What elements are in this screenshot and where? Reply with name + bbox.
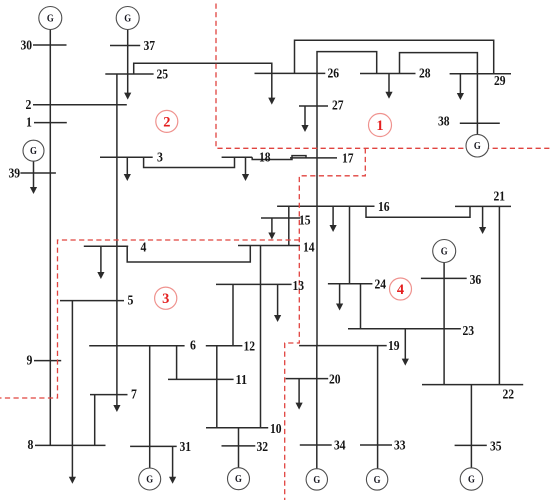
label 3 [157, 151, 163, 166]
generator 30 [39, 7, 62, 30]
generator 36 [433, 240, 456, 263]
generator 32 [228, 468, 250, 490]
svg-text:39: 39 [9, 167, 21, 182]
load on bus 13 [274, 284, 281, 322]
generator 33 [366, 469, 387, 490]
svg-text:2: 2 [163, 114, 170, 130]
svg-text:3: 3 [162, 291, 169, 307]
label 9 [27, 354, 33, 369]
svg-text:7: 7 [131, 388, 137, 403]
wire line 21-22 [498, 206, 500, 384]
label 30 [21, 39, 33, 54]
load on bus 29 [457, 74, 464, 100]
load on bus 28 [385, 74, 392, 99]
svg-text:18: 18 [259, 151, 271, 166]
generator 34 [306, 469, 327, 490]
bus 32 bar [222, 445, 256, 447]
svg-text:19: 19 [388, 339, 400, 354]
bus 12 bar [206, 345, 243, 347]
bus 39 bar [20, 172, 56, 174]
wire line 13-12 [232, 284, 234, 345]
wire line 16-21 [366, 206, 470, 217]
bus 6 bar [89, 345, 184, 347]
wire chain 25-2-3-4-5-6-7 [116, 74, 118, 395]
bus 25 bar [105, 73, 153, 75]
svg-text:37: 37 [144, 39, 156, 54]
svg-text:20: 20 [329, 373, 341, 388]
svg-text:G: G [374, 475, 381, 486]
label 20 [329, 373, 341, 388]
wire line 19-20-34 to generator-34 [316, 346, 318, 469]
load on bus 21 [479, 206, 486, 234]
load on bus 7 [113, 395, 120, 412]
generator 37 [116, 7, 139, 30]
load on bus 39 [30, 173, 37, 194]
bus 8 bar [35, 444, 106, 446]
label 16 [378, 200, 390, 215]
svg-text:30: 30 [21, 39, 33, 54]
label 4 [141, 241, 147, 256]
svg-text:8: 8 [28, 438, 34, 453]
label 17 [342, 152, 354, 167]
wire line 26-28 and long vertical 26-27-17-16-19 [317, 52, 377, 346]
zone boundary 1-2 vertical and 1 bottom [216, 4, 550, 149]
zone boundary notch around bus 17 and 4 left side [285, 148, 366, 500]
label 6 [190, 339, 196, 354]
bus 14 bar [238, 245, 300, 247]
bus 19 bar [299, 345, 387, 347]
svg-text:16: 16 [378, 200, 390, 215]
svg-text:G: G [474, 141, 481, 152]
wire line 6-31 to generator-31 [149, 346, 151, 468]
bus 38 bar [460, 122, 500, 124]
label 26 [328, 67, 340, 82]
svg-text:G: G [441, 246, 448, 257]
wire line 16-24 [349, 206, 351, 283]
svg-text:23: 23 [463, 324, 475, 339]
zone 4 circle [390, 278, 412, 300]
load on bus 16 [330, 206, 337, 232]
svg-text:13: 13 [293, 279, 305, 294]
label 36 [470, 273, 482, 288]
svg-text:1: 1 [26, 116, 32, 131]
svg-text:21: 21 [494, 190, 506, 205]
label 19 [388, 339, 400, 354]
zone 3 circle [155, 287, 177, 309]
wire generator-37 to bus 37 to bus 25 [127, 30, 129, 75]
label 18 [259, 151, 271, 166]
svg-text:15: 15 [299, 214, 311, 229]
load on bus 3 [124, 157, 131, 181]
label 24 [375, 278, 387, 293]
label 10 [270, 422, 282, 437]
svg-text:6: 6 [190, 339, 196, 354]
bus 1 bar [34, 122, 67, 124]
label 35 [490, 440, 502, 455]
bus 21 bar [455, 205, 511, 207]
load on bus 24 [336, 284, 343, 311]
wire line 3-18 [144, 157, 235, 167]
svg-text:17: 17 [342, 152, 354, 167]
bus 11 bar [168, 378, 234, 380]
svg-text:4: 4 [397, 282, 405, 298]
bus 20 bar [286, 378, 329, 380]
wire line 18-17 jog [252, 156, 306, 160]
svg-text:2: 2 [26, 98, 32, 113]
bus 18 bar [222, 156, 253, 158]
svg-text:G: G [124, 13, 131, 24]
bus 30 bar [33, 44, 67, 46]
bus 24 bar [328, 283, 373, 285]
svg-text:4: 4 [141, 241, 147, 256]
label 34 [334, 439, 346, 454]
wire line 26-29 top [295, 40, 494, 74]
svg-text:5: 5 [128, 294, 134, 309]
wire line 12-11-10 [216, 346, 218, 428]
wire line 24-23 [360, 284, 362, 329]
load on bus 20 [296, 379, 303, 410]
svg-text:G: G [47, 13, 54, 24]
label 39 [9, 167, 21, 182]
bus 27 bar [299, 105, 328, 107]
load on bus 25 [124, 74, 131, 100]
svg-text:24: 24 [375, 278, 387, 293]
bus 15 bar [261, 217, 300, 219]
bus 31 bar [130, 445, 177, 447]
label 22 [503, 388, 515, 403]
svg-text:34: 34 [334, 439, 346, 454]
bus 23 bar [348, 328, 461, 330]
bus 16 bar [277, 205, 374, 207]
label 8 [28, 438, 34, 453]
generator 35 [460, 468, 482, 490]
wire line 25-26 [134, 63, 272, 74]
label 32 [257, 440, 269, 455]
label 5 [128, 294, 134, 309]
label 11 [236, 373, 248, 388]
wire generator-30 chain 30-2-1-39-9-8 [49, 30, 51, 446]
svg-text:1: 1 [376, 118, 383, 134]
label 2 [26, 98, 32, 113]
svg-text:G: G [146, 474, 153, 485]
bus 2 bar [33, 104, 127, 106]
load on bus 23 [402, 329, 409, 366]
bus 5 bar [60, 300, 124, 302]
label 33 [394, 439, 406, 454]
wire line 16-15-14 [288, 206, 290, 245]
bus 7 bar [90, 394, 128, 396]
svg-text:22: 22 [503, 388, 515, 403]
generator 38 [466, 134, 489, 157]
wire line 22-35 to generator-35 [470, 385, 472, 468]
label 1 [26, 116, 32, 131]
bus 37 bar [110, 45, 140, 47]
svg-text:35: 35 [490, 440, 502, 455]
label 37 [144, 39, 156, 54]
svg-text:9: 9 [27, 354, 33, 369]
label 29 [494, 74, 506, 89]
wire line 5-8 [71, 301, 73, 446]
bus 28 bar [360, 73, 416, 75]
bus 9 bar [34, 360, 61, 362]
load on bus 8 [69, 445, 76, 483]
bus 26 bar [255, 72, 326, 74]
generator 31 [139, 468, 161, 490]
wire generator-36 to 36-23-22 [443, 262, 445, 385]
bus 22 bar [422, 384, 523, 386]
label 25 [157, 68, 169, 83]
bus 33 bar [360, 444, 392, 446]
wire line 19-33 to generator-33 [377, 346, 379, 469]
svg-text:12: 12 [244, 340, 256, 355]
svg-text:38: 38 [438, 115, 450, 130]
wire line 28-29 and 29-38 to generator-38 [400, 53, 478, 135]
svg-text:26: 26 [328, 67, 340, 82]
svg-text:10: 10 [270, 422, 282, 437]
label 12 [244, 340, 256, 355]
wire line 4-14 [127, 246, 250, 263]
svg-text:G: G [313, 475, 320, 486]
svg-text:G: G [468, 474, 475, 485]
load on bus 4 [97, 246, 104, 279]
generator 39 [23, 140, 44, 161]
svg-text:G: G [30, 146, 37, 157]
label 27 [332, 99, 344, 114]
wire line 6-11 [176, 346, 178, 380]
zone boundary 2-3 horizontal and 3 left side [0, 240, 299, 398]
label 38 [438, 115, 450, 130]
svg-text:3: 3 [157, 151, 163, 166]
bus 3 bar [100, 156, 153, 158]
svg-text:31: 31 [180, 440, 192, 455]
svg-text:36: 36 [470, 273, 482, 288]
svg-text:25: 25 [157, 68, 169, 83]
bus 13 bar [216, 283, 292, 285]
svg-text:14: 14 [303, 241, 315, 256]
load on bus 27 [301, 106, 308, 132]
bus 34 bar [300, 444, 332, 446]
wire line 10-32 to generator-32 [238, 428, 240, 468]
bus 35 bar [455, 444, 487, 446]
label 14 [303, 241, 315, 256]
wire generator-39 stub [33, 161, 35, 173]
zone 1 circle [369, 114, 392, 137]
load on bus 31 [169, 446, 176, 483]
svg-text:32: 32 [257, 440, 269, 455]
label 15 [299, 214, 311, 229]
bus 17 bar [290, 157, 337, 159]
bus 36 bar [421, 277, 467, 279]
wire line 14-13-10 [260, 246, 262, 428]
label 28 [419, 67, 431, 82]
svg-text:29: 29 [494, 74, 506, 89]
svg-text:33: 33 [394, 439, 406, 454]
label 23 [463, 324, 475, 339]
bus 10 bar [206, 427, 268, 429]
load on bus 18 [242, 157, 249, 181]
svg-text:G: G [235, 474, 242, 485]
label 13 [293, 279, 305, 294]
svg-text:11: 11 [236, 373, 248, 388]
load on bus 26 [268, 73, 275, 104]
label 7 [131, 388, 137, 403]
svg-text:27: 27 [332, 99, 344, 114]
svg-text:28: 28 [419, 67, 431, 82]
load on bus 15 [268, 218, 275, 240]
label 31 [180, 440, 192, 455]
bus 4 bar [84, 245, 128, 247]
wire line 7-8 [94, 395, 96, 446]
label 21 [494, 190, 506, 205]
bus 29 bar [450, 73, 511, 75]
zone 2 circle [156, 110, 178, 132]
